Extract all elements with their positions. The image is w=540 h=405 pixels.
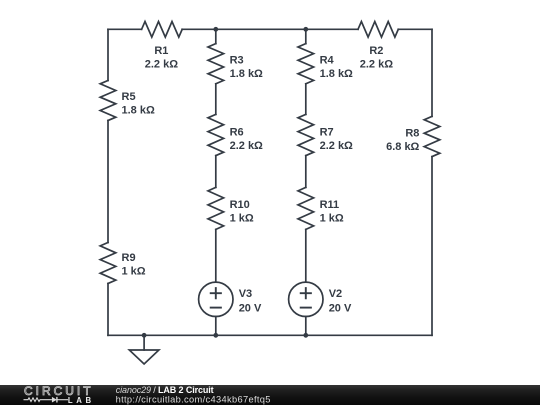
svg-text:2.2 kΩ: 2.2 kΩ xyxy=(360,59,393,71)
wire left rail upper xyxy=(107,29,109,80)
resistor R10 xyxy=(208,187,224,229)
node V2-bottom junction dot xyxy=(303,333,308,338)
voltage source V3 xyxy=(199,282,233,316)
svg-text:2.2 kΩ: 2.2 kΩ xyxy=(320,140,353,152)
svg-text:R6: R6 xyxy=(230,127,244,139)
resistor R3 xyxy=(208,44,224,84)
node A junction dot xyxy=(213,27,218,32)
resistor R8 xyxy=(424,116,440,156)
svg-text:1 kΩ: 1 kΩ xyxy=(320,213,344,225)
wire V2 to bottom rail xyxy=(305,317,307,336)
svg-text:V2: V2 xyxy=(329,288,342,300)
wire node B stem xyxy=(305,29,307,43)
wire top middle segment xyxy=(182,28,358,30)
svg-text:2.2 kΩ: 2.2 kΩ xyxy=(230,140,263,152)
resistor R6 xyxy=(208,114,224,155)
wire top-left horizontal segment xyxy=(108,28,142,30)
wire right rail lower xyxy=(431,157,433,336)
wire R3 to R6 xyxy=(215,84,217,115)
svg-text:V3: V3 xyxy=(239,288,252,300)
svg-text:1.8 kΩ: 1.8 kΩ xyxy=(122,105,155,117)
resistor R2 xyxy=(358,22,398,38)
resistor R4 xyxy=(298,44,314,84)
resistor R9 xyxy=(100,243,116,284)
wire V3 to bottom rail xyxy=(215,317,217,336)
wire top-right horizontal segment xyxy=(398,28,432,30)
svg-text:R7: R7 xyxy=(320,127,334,139)
svg-text:20 V: 20 V xyxy=(239,302,262,314)
wire R7 to R11 xyxy=(305,156,307,188)
ground junction dot xyxy=(142,333,147,338)
svg-text:R5: R5 xyxy=(122,91,136,103)
svg-text:R2: R2 xyxy=(369,45,383,57)
footer caption text xyxy=(0,378,540,405)
svg-text:http://circuitlab.com/c434kb67: http://circuitlab.com/c434kb67eftq5 xyxy=(116,395,271,405)
wire R6 to R10 xyxy=(215,156,217,188)
svg-text:1.8 kΩ: 1.8 kΩ xyxy=(230,68,263,80)
svg-text:R9: R9 xyxy=(122,252,136,264)
wire R11 to V2 xyxy=(305,229,307,282)
voltage source V2 xyxy=(289,282,323,316)
svg-text:cianoc29 / LAB 2 Circuit: cianoc29 / LAB 2 Circuit xyxy=(116,385,214,395)
resistor R7 xyxy=(298,114,314,155)
svg-text:1 kΩ: 1 kΩ xyxy=(122,266,146,278)
resistor R1 xyxy=(142,22,183,38)
svg-text:R11: R11 xyxy=(320,199,340,211)
wire bottom rail xyxy=(108,334,432,336)
svg-text:R3: R3 xyxy=(230,55,244,67)
svg-text:1.8 kΩ: 1.8 kΩ xyxy=(320,68,353,80)
wire node A stem xyxy=(215,29,217,43)
wire right rail upper xyxy=(431,29,433,116)
svg-text:6.8 kΩ: 6.8 kΩ xyxy=(386,141,419,153)
resistor R5 xyxy=(100,81,116,121)
svg-text:1 kΩ: 1 kΩ xyxy=(230,213,254,225)
svg-text:20 V: 20 V xyxy=(329,302,352,314)
wire R10 to V3 xyxy=(215,229,217,282)
wire left rail lower xyxy=(107,284,109,336)
svg-text:R10: R10 xyxy=(230,199,250,211)
svg-text:R1: R1 xyxy=(154,45,168,57)
resistor R11 xyxy=(298,187,314,229)
svg-text:R4: R4 xyxy=(320,55,335,67)
ground xyxy=(129,335,159,364)
node V3-bottom junction dot xyxy=(213,333,218,338)
CircuitLab logo xyxy=(24,384,94,405)
wire R4 to R7 xyxy=(305,84,307,115)
footer bar xyxy=(0,385,540,405)
wire left rail middle xyxy=(107,121,109,243)
svg-text:2.2 kΩ: 2.2 kΩ xyxy=(145,59,178,71)
svg-text:R8: R8 xyxy=(405,128,419,140)
node B junction dot xyxy=(303,27,308,32)
